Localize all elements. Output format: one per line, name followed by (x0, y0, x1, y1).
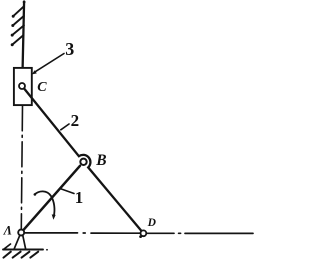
svg-text:B: B (95, 152, 106, 169)
svg-text:1: 1 (75, 188, 84, 207)
svg-text:C: C (37, 80, 47, 95)
svg-text:3: 3 (65, 39, 74, 59)
svg-text:2: 2 (71, 111, 80, 130)
svg-text:Λ: Λ (3, 224, 12, 238)
svg-text:D: D (147, 217, 157, 229)
